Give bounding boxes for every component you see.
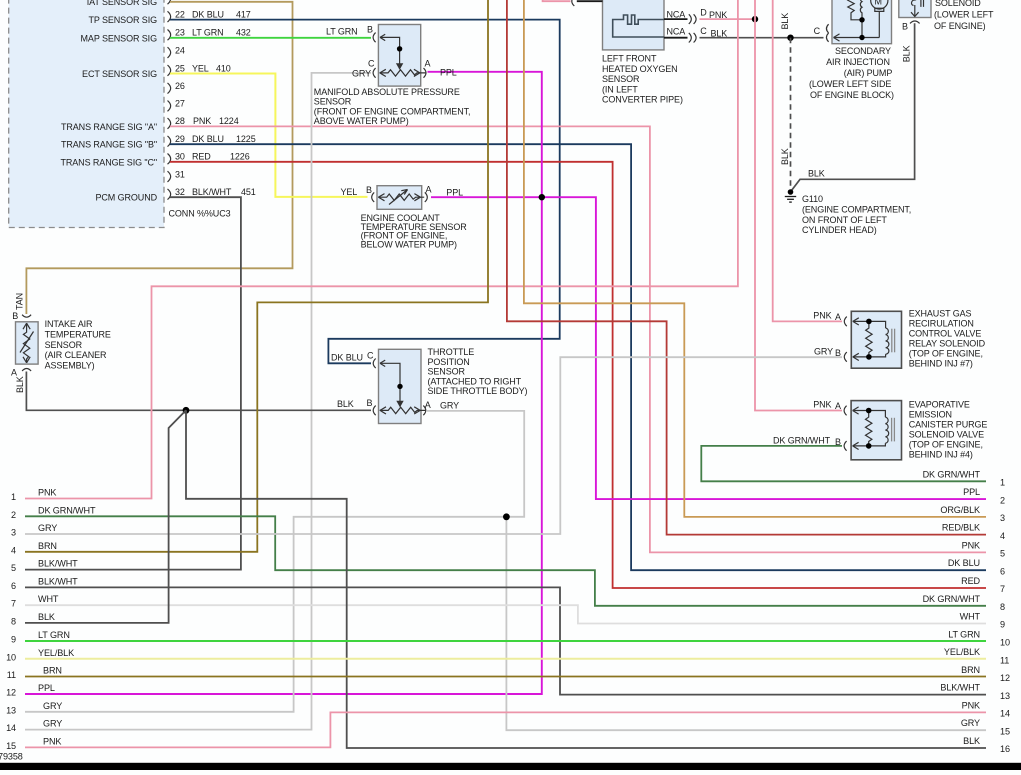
svg-text:AIR INJECTION: AIR INJECTION	[826, 57, 890, 67]
EGR pin arcs A B	[844, 317, 847, 362]
svg-text:LT GRN: LT GRN	[192, 28, 224, 38]
svg-text:OF ENGINE BLOCK): OF ENGINE BLOCK)	[810, 90, 894, 100]
O2 pin stubs and left pin stub	[577, 1, 688, 38]
svg-text:GRY: GRY	[352, 68, 371, 78]
SEC_RIGHTTOP	[25, 0, 994, 499]
wire WHT: left row 7 jog to right row 9	[25, 605, 986, 623]
SEC_PCM	[9, 0, 256, 228]
svg-text:10: 10	[6, 652, 16, 662]
svg-text:INTAKE AIR: INTAKE AIR	[45, 319, 93, 329]
svg-text:79358: 79358	[0, 752, 23, 762]
SEC_EGREVAP	[701, 309, 987, 482]
svg-text:TRANS RANGE SIG "B": TRANS RANGE SIG "B"	[61, 140, 157, 150]
svg-text:DK BLU: DK BLU	[331, 352, 363, 362]
svg-text:9: 9	[1000, 620, 1005, 630]
svg-text:6: 6	[1000, 566, 1005, 576]
wire PNK: top edge down to O2 sensor left pin	[543, 0, 571, 1]
svg-text:TEMPERATURE: TEMPERATURE	[45, 330, 111, 340]
wire YEL/BLK: left row 10 straight to right row 11	[25, 658, 986, 660]
svg-text:DK BLU: DK BLU	[192, 134, 224, 144]
svg-text:TAN: TAN	[15, 293, 25, 310]
ground dashed BLK wire to G110	[790, 38, 792, 189]
svg-text:(ENGINE COMPARTMENT,: (ENGINE COMPARTMENT,	[802, 205, 911, 215]
svg-text:C: C	[700, 26, 707, 36]
svg-text:RED: RED	[192, 152, 211, 162]
svg-text:YEL: YEL	[192, 63, 209, 73]
svg-text:B: B	[12, 311, 18, 321]
node BLK junction	[183, 407, 190, 414]
svg-text:BRN: BRN	[961, 665, 980, 675]
PNK riser 1: top to pink bus corner	[25, 0, 738, 499]
EGR pin labels	[813, 311, 841, 358]
svg-text:BLK/WHT: BLK/WHT	[38, 559, 78, 569]
svg-text:BEHIND INJ #4): BEHIND INJ #4)	[909, 450, 973, 460]
svg-text:12: 12	[6, 688, 16, 698]
PCM pin numbers and wire codes	[169, 10, 256, 219]
O2 sensor left front heated oxygen sensor box	[603, 0, 665, 50]
svg-text:TRANS RANGE SIG "A": TRANS RANGE SIG "A"	[61, 122, 157, 132]
svg-text:DK GRN/WHT: DK GRN/WHT	[773, 436, 831, 446]
svg-text:BLK: BLK	[808, 169, 825, 179]
right wire colour labels	[923, 469, 981, 746]
svg-text:BLK/WHT: BLK/WHT	[940, 683, 980, 693]
svg-text:417: 417	[236, 10, 251, 20]
svg-text:PNK: PNK	[813, 400, 831, 410]
PCM pin labels	[60, 0, 157, 203]
wire LT GRN 432 MAP sensor sig: row23 to MAP pin B	[170, 37, 371, 39]
O2 caption	[602, 54, 683, 105]
IAT pin letters and rotated wire labels	[11, 293, 25, 393]
svg-text:PPL: PPL	[963, 487, 980, 497]
svg-text:(ATTACHED TO RIGHT: (ATTACHED TO RIGHT	[428, 376, 522, 386]
svg-text:CANISTER PURGE: CANISTER PURGE	[909, 420, 988, 430]
wire GRY: TPS pin A right down and left to grey bus	[25, 411, 524, 712]
svg-text:B: B	[902, 21, 908, 31]
svg-text:1225: 1225	[236, 134, 256, 144]
MAP sensor caption	[314, 87, 471, 126]
EVAP pin arcs A B	[844, 406, 847, 451]
svg-text:2: 2	[11, 510, 16, 520]
PCM pin arcs 21-32	[168, 0, 171, 200]
svg-text:(TOP OF ENGINE,: (TOP OF ENGINE,	[909, 440, 983, 450]
svg-text:29: 29	[175, 134, 185, 144]
wire PNK: left row 15 up to right row 14	[25, 712, 986, 747]
svg-text:RELAY SOLENOID: RELAY SOLENOID	[909, 339, 986, 349]
svg-text:DK GRN/WHT: DK GRN/WHT	[38, 505, 96, 515]
svg-text:POSITION: POSITION	[428, 357, 470, 367]
svg-text:SENSOR: SENSOR	[314, 97, 352, 107]
svg-text:LT GRN: LT GRN	[948, 629, 980, 639]
svg-text:32: 32	[175, 187, 185, 197]
wire DK BLU 1225 trans range B: row29 to right row 6	[170, 144, 986, 570]
left wire colour labels	[38, 488, 96, 747]
EGR exhaust gas recirculation control valve relay solenoid box	[851, 311, 901, 368]
svg-text:SOLENOID: SOLENOID	[935, 0, 981, 8]
ECT caption	[361, 213, 468, 249]
wire GRY: left row 3 up to EGR pin B	[25, 357, 842, 534]
MAP pin letters and wire labels	[326, 25, 457, 79]
rotated BLK labels on dashed wire	[780, 13, 790, 165]
svg-text:(FRONT OF ENGINE COMPARTMENT,: (FRONT OF ENGINE COMPARTMENT,	[314, 106, 471, 116]
TPS caption	[428, 347, 528, 396]
right connector numbers 1-16	[1000, 478, 1010, 755]
svg-text:PPL: PPL	[446, 188, 463, 198]
svg-text:A: A	[425, 400, 431, 410]
svg-text:RED/BLK: RED/BLK	[942, 523, 980, 533]
drawing number 79358	[0, 752, 23, 762]
svg-text:GRY: GRY	[814, 346, 833, 356]
wire BRN: left row 11 straight to right row 12	[25, 676, 986, 678]
svg-text:LT GRN: LT GRN	[326, 27, 358, 37]
PCM connector box (dashed)	[9, 0, 164, 228]
wire BLK/WHT: left row 6 down to right row 13	[25, 587, 986, 694]
O2 pin arcs D C (double)	[689, 14, 696, 42]
svg-text:7: 7	[11, 599, 16, 609]
svg-text:SENSOR: SENSOR	[45, 340, 83, 350]
PNK riser 3: top to EGR pin A	[773, 0, 842, 321]
MAP sensor box	[378, 25, 425, 87]
svg-text:MANIFOLD ABSOLUTE PRESSURE: MANIFOLD ABSOLUTE PRESSURE	[314, 87, 460, 97]
svg-text:BRN: BRN	[43, 666, 62, 676]
TPS throttle position sensor box	[379, 349, 426, 423]
ECT pin letters and labels	[341, 184, 464, 197]
svg-text:6: 6	[11, 581, 16, 591]
svg-text:12: 12	[1000, 673, 1010, 683]
svg-text:RED: RED	[961, 576, 980, 586]
svg-text:1226: 1226	[230, 152, 250, 162]
wire LT GRN: left row 9 straight to right row 10	[25, 640, 986, 642]
svg-text:NCA: NCA	[667, 10, 686, 20]
svg-text:ON FRONT OF LEFT: ON FRONT OF LEFT	[802, 215, 887, 225]
svg-text:PNK: PNK	[962, 540, 980, 550]
IAT pin arcs B A	[22, 315, 31, 371]
left connector numbers 1-15	[6, 492, 16, 751]
G110 caption	[802, 194, 911, 235]
svg-text:BEHIND INJ #7): BEHIND INJ #7)	[909, 359, 973, 369]
wire RED/BLK: top edge down across to right row 4	[507, 0, 986, 535]
svg-text:C: C	[814, 26, 821, 36]
svg-text:TP SENSOR SIG: TP SENSOR SIG	[88, 15, 157, 25]
svg-text:432: 432	[236, 28, 251, 38]
EVAP pin labels	[773, 400, 841, 447]
svg-text:GRY: GRY	[38, 523, 57, 533]
svg-text:16: 16	[1000, 744, 1010, 754]
svg-text:B: B	[366, 185, 372, 195]
svg-text:DK GRN/WHT: DK GRN/WHT	[923, 594, 981, 604]
wire DK GRN/WHT: EVAP pin B left down to right row 1	[701, 446, 986, 481]
svg-text:13: 13	[6, 705, 16, 715]
SEC_BOTTOM	[0, 469, 1021, 770]
wire BLK: left row 8 up diagonal to junction	[25, 410, 186, 623]
svg-text:8: 8	[11, 616, 16, 626]
svg-text:ECT SENSOR SIG: ECT SENSOR SIG	[82, 69, 157, 79]
svg-text:EMISSION: EMISSION	[909, 410, 952, 420]
svg-text:THROTTLE: THROTTLE	[428, 347, 475, 357]
wire BRN: top edge down to left row 4	[25, 0, 488, 552]
wire GRY branch: junction down to right row 15	[506, 517, 986, 730]
svg-text:CYLINDER HEAD): CYLINDER HEAD)	[802, 225, 877, 235]
svg-text:8: 8	[1000, 602, 1005, 612]
svg-text:WHT: WHT	[960, 612, 981, 622]
svg-text:C: C	[367, 350, 374, 360]
svg-text:30: 30	[175, 152, 185, 162]
svg-text:YEL/BLK: YEL/BLK	[944, 647, 980, 657]
svg-text:(LOWER LEFT: (LOWER LEFT	[934, 10, 994, 20]
svg-text:BLK: BLK	[902, 45, 912, 62]
TPS pin arcs C B A	[373, 359, 426, 416]
svg-text:ORG/BLK: ORG/BLK	[940, 505, 980, 515]
wire BLK: junction down right down to right row 16	[186, 410, 986, 748]
svg-text:EVAPORATIVE: EVAPORATIVE	[909, 400, 970, 410]
svg-text:PNK: PNK	[38, 488, 56, 498]
svg-text:23: 23	[175, 28, 185, 38]
svg-text:CONVERTER PIPE): CONVERTER PIPE)	[602, 95, 683, 105]
svg-text:31: 31	[175, 169, 185, 179]
wire PPL: ECT pin A to right row 2	[431, 197, 986, 499]
svg-text:1224: 1224	[219, 116, 239, 126]
svg-text:BLK: BLK	[337, 399, 354, 409]
svg-text:SENSOR: SENSOR	[428, 367, 466, 377]
svg-text:PPL: PPL	[38, 683, 55, 693]
svg-text:BLK: BLK	[38, 612, 55, 622]
ECT sensor box	[377, 186, 424, 210]
svg-text:13: 13	[1000, 691, 1010, 701]
svg-text:BLK: BLK	[780, 148, 790, 165]
svg-text:G110: G110	[802, 194, 823, 204]
EVAP caption	[909, 400, 988, 460]
wire GRY: MAP pin C down to left row 14	[25, 73, 371, 730]
svg-text:(TOP OF ENGINE,: (TOP OF ENGINE,	[909, 349, 983, 359]
AIR pump pin letter C	[814, 26, 821, 36]
svg-text:TRANS RANGE SIG "C": TRANS RANGE SIG "C"	[60, 157, 157, 167]
svg-text:PNK: PNK	[193, 116, 211, 126]
svg-text:YEL/BLK: YEL/BLK	[38, 648, 74, 658]
AIR pump caption	[809, 46, 894, 100]
svg-text:DK BLU: DK BLU	[948, 558, 980, 568]
svg-text:CONN %%UC3: CONN %%UC3	[169, 209, 231, 219]
svg-text:BLK: BLK	[15, 376, 25, 393]
svg-text:SENSOR: SENSOR	[602, 74, 640, 84]
svg-text:EXHAUST GAS: EXHAUST GAS	[909, 309, 972, 319]
svg-text:NCA: NCA	[667, 26, 686, 36]
O2 left pin arc	[572, 0, 575, 6]
svg-text:SECONDARY: SECONDARY	[835, 46, 891, 56]
svg-text:HEATED OXYGEN: HEATED OXYGEN	[602, 64, 678, 74]
wire PNK 1224 trans range A: row28 to right row 5	[170, 126, 986, 552]
svg-text:GRY: GRY	[440, 400, 459, 410]
node BLK junction at ground tap	[787, 35, 793, 41]
TPS pin letters and labels	[331, 350, 459, 410]
svg-text:14: 14	[1000, 709, 1010, 719]
svg-text:PPL: PPL	[440, 68, 457, 78]
IAT caption	[45, 319, 111, 370]
svg-text:GRY: GRY	[43, 701, 62, 711]
svg-text:BRN: BRN	[38, 541, 57, 551]
solenoid caption	[934, 0, 994, 31]
svg-text:27: 27	[175, 99, 185, 109]
EVAP canister purge solenoid valve box	[851, 401, 901, 460]
svg-text:A: A	[835, 312, 841, 322]
svg-text:MAP SENSOR SIG: MAP SENSOR SIG	[81, 33, 158, 43]
PNK riser 2: top through O2 junction to EVAP pin A	[755, 0, 842, 411]
svg-text:CONTROL VALVE: CONTROL VALVE	[909, 329, 982, 339]
svg-text:1: 1	[11, 492, 16, 502]
svg-text:(IN LEFT: (IN LEFT	[602, 84, 638, 94]
svg-text:3: 3	[11, 528, 16, 538]
node GRY junction	[503, 513, 510, 520]
MAP pin arcs B C A	[373, 33, 426, 78]
svg-text:PNK: PNK	[962, 700, 980, 710]
bottom black bar	[0, 763, 1021, 770]
solenoid pin B arc	[910, 21, 920, 23]
wire DK BLU 417 TP sensor sig: row22 to TPS pin C	[170, 20, 560, 364]
svg-text:IAT SENSOR SIG: IAT SENSOR SIG	[87, 0, 157, 7]
svg-text:YEL: YEL	[341, 187, 358, 197]
svg-text:A: A	[835, 401, 841, 411]
svg-text:B: B	[367, 398, 373, 408]
wire TAN 472 IAT sensor sig: row21 right, down, left, down to IAT pin B	[26, 2, 292, 314]
svg-text:DK BLU: DK BLU	[192, 10, 224, 20]
svg-text:BLK: BLK	[780, 13, 790, 30]
svg-text:5: 5	[1000, 549, 1005, 559]
wire PNK: O2 pin D to junction on pink riser	[700, 18, 756, 20]
svg-text:A: A	[11, 367, 17, 377]
svg-text:451: 451	[241, 187, 256, 197]
svg-text:PNK: PNK	[43, 736, 61, 746]
svg-text:1: 1	[1000, 478, 1005, 488]
svg-text:3: 3	[1000, 513, 1005, 523]
svg-text:BELOW WATER PUMP): BELOW WATER PUMP)	[361, 239, 457, 249]
svg-text:15: 15	[6, 741, 16, 751]
O2 labels NCA D PNK C BLK	[667, 7, 728, 38]
svg-text:LT GRN: LT GRN	[38, 630, 70, 640]
svg-text:WHT: WHT	[38, 594, 59, 604]
solenoid pin letter B and rotated BLK	[902, 21, 912, 62]
EGR caption	[909, 309, 986, 369]
svg-text:M: M	[875, 0, 882, 7]
AIR pump pin C arcs	[826, 24, 828, 42]
svg-text:D: D	[700, 7, 707, 17]
svg-text:410: 410	[216, 63, 231, 73]
svg-text:25: 25	[175, 63, 185, 73]
svg-text:SOLENOID VALVE: SOLENOID VALVE	[909, 430, 984, 440]
node PNK junction	[752, 16, 758, 22]
wire DK GRN/WHT: left row 2 staircase to right row 8	[25, 516, 986, 606]
svg-text:(AIR CLEANER: (AIR CLEANER	[45, 350, 107, 360]
svg-text:B: B	[835, 348, 841, 358]
wire BLK: O2 pin C to AIR pump pin C	[700, 37, 824, 39]
svg-text:PNK: PNK	[813, 311, 831, 321]
wire BLK: solenoid B down left and diagonal to G110	[792, 23, 915, 190]
ground G110 symbol	[785, 189, 796, 202]
svg-text:5: 5	[11, 563, 16, 573]
svg-text:2: 2	[1000, 495, 1005, 505]
svg-text:15: 15	[1000, 726, 1010, 736]
svg-text:26: 26	[175, 81, 185, 91]
wire BLK/WHT 451 PCM ground: row32 down to left row 5	[25, 197, 241, 569]
svg-text:10: 10	[1000, 638, 1010, 648]
svg-text:ASSEMBLY): ASSEMBLY)	[45, 360, 95, 370]
svg-text:11: 11	[1000, 655, 1009, 665]
svg-text:B: B	[367, 25, 373, 35]
solenoid box top right	[899, 0, 931, 18]
BLK label at ground wire	[808, 169, 825, 179]
svg-text:RECIRULATION: RECIRULATION	[909, 319, 974, 329]
svg-text:BLK/WHT: BLK/WHT	[192, 187, 232, 197]
svg-text:DK GRN/WHT: DK GRN/WHT	[923, 469, 981, 479]
svg-text:C: C	[368, 59, 375, 69]
wire PPL: MAP pin A down to left row 12	[25, 72, 542, 694]
svg-text:GRY: GRY	[43, 719, 62, 729]
svg-text:(AIR) PUMP: (AIR) PUMP	[844, 68, 893, 78]
svg-text:ABOVE WATER PUMP): ABOVE WATER PUMP)	[314, 116, 409, 126]
svg-text:28: 28	[175, 116, 185, 126]
svg-text:PCM GROUND: PCM GROUND	[96, 193, 158, 203]
svg-text:SIDE THROTTLE BODY): SIDE THROTTLE BODY)	[428, 386, 528, 396]
svg-text:4: 4	[11, 545, 16, 555]
svg-text:A: A	[426, 184, 432, 194]
AIR pump secondary air injection box	[832, 0, 892, 44]
svg-text:22: 22	[175, 10, 185, 20]
svg-text:24: 24	[175, 45, 185, 55]
svg-text:9: 9	[11, 635, 16, 645]
svg-text:14: 14	[6, 723, 16, 733]
node PPL junction at ECT wire	[539, 194, 545, 200]
svg-text:OF ENGINE): OF ENGINE)	[934, 21, 986, 31]
svg-text:BLK/WHT: BLK/WHT	[38, 576, 78, 586]
wire BLK: IAT pin A down then right to TPS pin B	[26, 372, 371, 411]
svg-text:4: 4	[1000, 531, 1005, 541]
wire RED 1226 trans range C: row30 to right row 7	[170, 162, 986, 588]
svg-text:(LOWER LEFT SIDE: (LOWER LEFT SIDE	[809, 79, 891, 89]
svg-text:A: A	[425, 59, 431, 69]
svg-text:11: 11	[7, 670, 16, 680]
wire ORG/BLK: top edge down across to right row 3	[524, 0, 986, 517]
wire YEL 410 ECT sensor sig: row25 down to ECT pin B	[170, 74, 368, 197]
svg-text:GRY: GRY	[961, 718, 980, 728]
svg-text:LEFT FRONT: LEFT FRONT	[602, 54, 657, 64]
ECT pin arcs B A	[372, 192, 428, 202]
svg-text:BLK: BLK	[963, 736, 980, 746]
IAT sensor box	[16, 322, 39, 364]
svg-text:7: 7	[1000, 584, 1005, 594]
